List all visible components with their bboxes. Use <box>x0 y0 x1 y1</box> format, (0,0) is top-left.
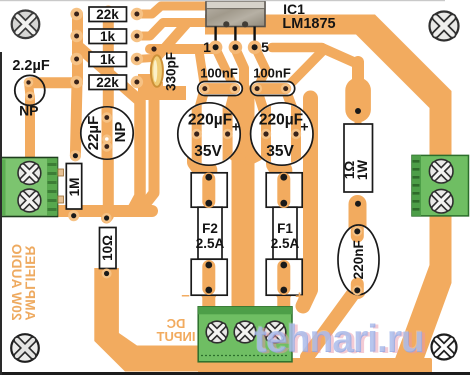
svg-text:IC1: IC1 <box>283 1 305 17</box>
IC pin pads 1,3,5 <box>209 41 223 55</box>
wire: F1 clip2 down to DC block <box>275 265 292 292</box>
screw 1 <box>206 321 228 343</box>
pads: fuse F1 <box>280 174 287 294</box>
wire: right cap right pad to right band <box>296 129 309 139</box>
op-amp IC1 LM1875 package <box>206 1 265 54</box>
wires inside 220uF left <box>197 104 228 165</box>
watermark tehnari.ru <box>253 317 427 362</box>
wires inside 220uF right <box>266 104 296 165</box>
interior traces redrawn inside capacitor bodies <box>29 82 358 293</box>
wire: 2.2uF bottom pad down to speaker block <box>25 96 35 160</box>
wire: 22k2 right pad to 330pF bottom <box>137 82 152 83</box>
svg-text:AMPLIFIER20W AUDIO: AMPLIFIER20W AUDIO <box>9 244 38 321</box>
screw 1 <box>18 162 41 185</box>
svg-text:220nF: 220nF <box>351 240 366 279</box>
svg-text:2.5A: 2.5A <box>196 236 225 251</box>
wire: vertical trace through resistors and 22uF to 10ohm <box>107 11 109 218</box>
resistor 1k (second) body <box>89 52 127 67</box>
wire: bottom band to DC block <box>198 358 432 375</box>
wire: horizontal right of pin5 <box>272 43 322 53</box>
capacitor 2.2uF body <box>15 75 45 105</box>
svg-text:22k: 22k <box>96 7 119 22</box>
mounting hole bottom-left <box>11 334 39 362</box>
wire inside 100nF right <box>257 83 286 94</box>
wire: 10ohm bottom pad L-trace to DC block <box>94 268 198 372</box>
terminal block: output (right) <box>412 155 469 216</box>
capacitor 220uF left body <box>178 103 240 165</box>
svg-text:100nF: 100nF <box>253 66 291 81</box>
pin 2 dot <box>223 21 229 27</box>
svg-text:+: + <box>295 288 304 305</box>
pads: 220uF left <box>192 129 233 139</box>
fuse F1 top clip <box>266 173 302 207</box>
wire inside F2 bottom clip <box>202 267 215 289</box>
pads: 100nF right <box>252 84 291 94</box>
wire inside F1 bottom clip <box>277 267 290 289</box>
wire: 330pF top diagonal to IC band <box>157 23 187 57</box>
wire: 2.2uF top pad to left bus <box>30 77 77 88</box>
wire: pin1 stadium <box>150 44 215 54</box>
fuse F1 bottom clip <box>266 259 302 295</box>
wire: thick band behind IC, right edge bend, down to bottom band <box>205 15 452 375</box>
wire: 1k2 right pad to 330pF top <box>137 58 152 59</box>
pads: 1ohm resistor <box>352 108 362 295</box>
svg-text:220µF: 220µF <box>188 112 232 129</box>
resistor 1ohm 1W body <box>344 124 373 192</box>
pads: 22uF <box>102 112 112 151</box>
svg-text:2.2µF: 2.2µF <box>12 58 50 74</box>
wire inside 22uF <box>102 106 113 160</box>
wire: 22k top to IC <box>137 6 210 14</box>
photo border edges <box>0 372 470 375</box>
svg-text:2.5A: 2.5A <box>271 236 300 251</box>
pin legs <box>214 27 216 48</box>
wire: left resistor pads vertical bus <box>72 14 83 83</box>
fuse F1 body <box>273 207 297 259</box>
wire inside F1 top clip <box>277 179 290 202</box>
wire: left cap left pad up to 100nF <box>197 89 205 136</box>
mounting hole top-left <box>12 10 40 38</box>
screw 2 <box>429 189 453 213</box>
wire: 220nF bottom pad diagonal to bottom band <box>307 288 357 357</box>
svg-text:NP: NP <box>112 122 129 143</box>
silkscreen mirrored texts <box>9 244 304 344</box>
pads: 1M resistor <box>68 150 81 221</box>
wire: pin3 down to central band <box>235 49 244 100</box>
svg-text:1Ω1W: 1Ω1W <box>342 160 370 181</box>
svg-text:tehnari.ru: tehnari.ru <box>253 317 423 360</box>
capacitor 220uF right body <box>251 103 313 165</box>
terminal block: DC input (bottom) <box>198 307 292 362</box>
wire: right 100nF right pad diagonal up <box>286 50 324 89</box>
svg-text:NP: NP <box>19 103 38 119</box>
wire inside 2.2uF <box>29 82 31 97</box>
via near pin1 stadium <box>151 46 156 51</box>
wire: 1k to IC <box>137 23 210 37</box>
pin 4 dot <box>242 21 248 27</box>
fuse F2 body <box>198 207 222 259</box>
wire: right cap left pad down merge central <box>250 134 266 160</box>
svg-text:35V: 35V <box>266 143 294 160</box>
wire: left cap left pad down to fuse F2 clip <box>196 134 203 172</box>
wire: pin1 to left 100nF right pad <box>216 49 235 89</box>
capacitor 330pF body <box>151 55 163 87</box>
capacitor 100nF right body <box>251 82 295 96</box>
capacitor 22uF NP body <box>81 107 133 159</box>
svg-text:22µF: 22µF <box>85 116 102 151</box>
resistor 22k (top) body <box>89 7 127 22</box>
wire: F2 clip2 down to DC block <box>200 265 217 292</box>
svg-text:10Ω: 10Ω <box>100 235 115 261</box>
wire: junction filler left of 100nF <box>138 74 186 100</box>
wire inside 100nF left <box>205 83 235 94</box>
svg-text:+: + <box>232 119 240 135</box>
svg-text:100nF: 100nF <box>200 66 238 81</box>
svg-text:1k: 1k <box>100 29 116 44</box>
svg-text:330pF: 330pF <box>164 52 179 91</box>
svg-text:–: – <box>181 287 189 304</box>
wire: central ground band between fuses <box>232 95 255 305</box>
wire: right cap left pad up to 100nF left pad <box>257 90 266 136</box>
wire inside F2 top clip <box>202 179 215 202</box>
wire: 1ohm top blob <box>345 78 371 123</box>
capacitor 100nF left body <box>198 82 243 96</box>
wire: ground bus horizontal above 1M/10ohm <box>56 205 152 217</box>
svg-text:+: + <box>300 119 308 135</box>
resistor 22k (second) body <box>89 75 127 90</box>
resistor 1k body <box>89 29 127 44</box>
wire: pin5 to right 100nF left pad <box>256 49 266 89</box>
pads: 2.2uF <box>24 78 35 101</box>
wire: left cap right pad up to 100nF right pad <box>228 90 235 136</box>
svg-text:F1: F1 <box>277 221 293 236</box>
wire: right band beside F1 <box>303 98 311 306</box>
svg-text:35V: 35V <box>194 143 222 160</box>
component bodies <box>15 7 379 295</box>
wire: diagonal under 1k resistors <box>80 48 140 209</box>
fuse F2 bottom clip <box>191 259 227 295</box>
screw 3 <box>264 321 286 343</box>
pads: fuse F2 <box>205 174 212 294</box>
pads: 100nF left <box>200 84 240 94</box>
capacitor 220nF body <box>338 225 379 295</box>
svg-text:LM1875: LM1875 <box>282 16 335 32</box>
mounting hole bottom-right <box>432 335 457 360</box>
resistor 10ohm body <box>100 228 117 269</box>
pads: 220nF <box>354 228 360 293</box>
fuse F2 top clip <box>191 173 227 207</box>
svg-text:1: 1 <box>203 39 211 55</box>
pads: 10ohm resistor <box>102 213 112 279</box>
resistor 1M body <box>66 164 81 210</box>
pads: resistors top-left <box>70 8 143 88</box>
svg-text:220µF: 220µF <box>259 112 303 129</box>
wire: diagonal down to 1ohm stub <box>322 48 358 64</box>
wire: left 100nF left pad up-left branch <box>200 54 205 89</box>
screw 2 <box>18 189 41 212</box>
svg-text:F2: F2 <box>202 221 218 236</box>
svg-text:1k: 1k <box>100 52 116 67</box>
screw 2 <box>234 321 256 343</box>
wire tongues inside 220nF <box>351 226 364 293</box>
svg-text:1M: 1M <box>67 178 82 197</box>
svg-text:22k: 22k <box>96 75 119 90</box>
pads: 220uF right <box>261 129 301 139</box>
wire: left cap right pad down merge central <box>228 134 243 160</box>
screw 1 <box>429 159 453 183</box>
mounting hole top-right <box>430 12 459 41</box>
wire: right cap right pad up to 100nF right pad <box>286 90 296 136</box>
wire: 1ohm bottom pad to 220nF top pad <box>349 195 367 241</box>
svg-text:5: 5 <box>261 39 269 55</box>
wire: left bus down to 1M top pad <box>75 83 77 156</box>
terminal block: speaker output (left) <box>0 158 64 217</box>
wire: 330pF bottom bus down <box>143 82 154 207</box>
